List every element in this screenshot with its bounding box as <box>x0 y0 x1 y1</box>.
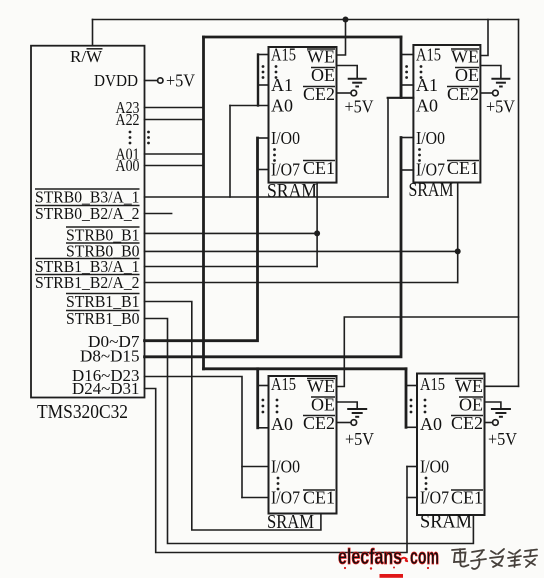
wire U5 WE from right vertical <box>485 385 519 387</box>
ground at U4 OE <box>337 402 368 417</box>
IC U1 TMS320C32 box <box>31 46 145 398</box>
wire A22 stub <box>145 119 204 121</box>
U2 ellipsis dots address outer <box>262 65 265 79</box>
svg-text:A00: A00 <box>116 156 140 175</box>
svg-text:SRAM: SRAM <box>409 179 454 201</box>
svg-text:TMS320C32: TMS320C32 <box>37 401 128 423</box>
wire U2 A0 jog <box>230 105 269 107</box>
svg-text:A0: A0 <box>271 96 293 116</box>
wire U5 I/O7 stub <box>407 497 417 499</box>
wire U2 I/O7 stub <box>258 169 269 171</box>
U2 pin CE1 label <box>303 158 335 178</box>
svg-text:+5V: +5V <box>345 429 374 449</box>
wire U3 I/O0 stub <box>401 137 413 139</box>
wire U4 A0 stub <box>258 427 269 429</box>
U4 ellipsis dots address inner <box>276 399 279 414</box>
U3 pin CE2 label <box>447 84 479 104</box>
wire U2 CE1 drop <box>316 183 318 267</box>
watermark chinese characters 电子发烧友 <box>452 549 537 569</box>
bus address bottom run <box>204 367 407 370</box>
wire U2 address drop to A_1 line <box>229 106 231 198</box>
svg-text:+5V: +5V <box>166 71 195 91</box>
power +5V at U2 CE2 <box>337 90 374 116</box>
pin STRB0_B2/A_2 label <box>35 204 140 223</box>
wire U2 WE tap <box>337 20 346 56</box>
svg-text:I/O0: I/O0 <box>420 457 449 477</box>
bus address drop to U3 <box>400 37 403 97</box>
svg-text:I/O7: I/O7 <box>416 160 445 180</box>
junction dot R/W to U2 WE <box>343 17 349 23</box>
svg-text:A15: A15 <box>416 45 441 65</box>
svg-text:D8~D15: D8~D15 <box>80 347 140 366</box>
svg-text:I/O0: I/O0 <box>416 128 445 148</box>
U2 pin OE label <box>311 65 335 85</box>
wire STRB0_B0 line <box>145 250 458 252</box>
U4 pin CE2 label <box>303 413 335 433</box>
SRAM U4 box (bottom-left) <box>269 376 337 514</box>
pin STRB1_B1 label <box>66 292 140 311</box>
watermark red underline <box>380 574 404 578</box>
svg-text:D24~D31: D24~D31 <box>72 379 140 398</box>
svg-text:I/O7: I/O7 <box>271 160 300 180</box>
svg-text:A0: A0 <box>416 96 438 116</box>
wire STRB1_B2/A_2 line <box>145 282 458 284</box>
U4 pin OE label <box>311 395 335 415</box>
U5 pin CE1 label <box>451 488 483 508</box>
svg-text:A1: A1 <box>416 75 438 95</box>
bus address drop to U5 <box>405 369 408 428</box>
svg-text:I/O0: I/O0 <box>271 128 300 148</box>
wire STRB0_B3/A_1 line <box>145 196 389 198</box>
wire U5 A15 stub <box>406 385 417 387</box>
svg-text:STRB0_B2/A_2: STRB0_B2/A_2 <box>35 204 140 223</box>
watermark connector squiggle <box>401 558 408 561</box>
U3 pin OE label <box>455 65 479 85</box>
svg-text:+5V: +5V <box>488 429 517 449</box>
wire STRB1_B3/A_1 line <box>145 266 318 268</box>
wire A00 stub <box>145 165 204 167</box>
wire D24~D31 line to U5 I/O <box>145 389 408 553</box>
bus address thick top run <box>204 36 402 39</box>
wire U3 address vertical <box>400 55 402 98</box>
wire U4 I/O7 stub <box>242 497 269 499</box>
bus address drop to U4 <box>256 369 259 428</box>
U5 ellipsis dots address inner <box>424 399 427 414</box>
wire U2 A1 stub <box>258 84 269 86</box>
wire U5 I/O0 stub <box>407 466 417 468</box>
U5 pin CE2 label <box>451 413 483 433</box>
U4 ellipsis dots io <box>277 477 280 491</box>
svg-text:I/O7: I/O7 <box>271 488 300 508</box>
U3 pin CE1 label <box>447 158 479 178</box>
svg-text:SRAM: SRAM <box>420 511 472 533</box>
U3 ellipsis dots address inner <box>420 65 423 79</box>
wire U3 address entry <box>388 97 414 99</box>
wire D16~D23 line to U4 I/O <box>145 377 243 498</box>
power +5V at DVDD <box>158 71 195 91</box>
ellipsis dots TMS address outer <box>147 131 150 145</box>
svg-text:A1: A1 <box>271 75 293 95</box>
ground at U3 OE <box>480 66 510 87</box>
svg-text:R/W: R/W <box>70 47 103 66</box>
U2 pin WE label <box>307 47 335 67</box>
wire U4 I/O0 stub <box>242 466 269 468</box>
wire STRB1_B0 line to bottom right SRAM CE1 <box>145 319 474 544</box>
SRAM U2 box (top-left) <box>269 47 337 183</box>
U3 ellipsis dots io <box>418 148 421 162</box>
SRAM U5 box (bottom-right) <box>417 374 485 516</box>
wire R/W top horizontal net <box>93 19 519 21</box>
svg-text:A22: A22 <box>116 110 140 129</box>
pin R/W label <box>70 47 103 66</box>
U3 ellipsis dots address outer <box>405 65 408 79</box>
svg-text:I/O0: I/O0 <box>271 457 300 477</box>
pin STRB0_B1 label <box>66 226 140 245</box>
svg-text:A15: A15 <box>420 374 445 394</box>
ground at U5 OE <box>485 402 511 417</box>
wire U2 address vertical <box>257 55 259 106</box>
wire STRB0_B2/A_2 stub <box>145 213 172 215</box>
wire U2 A15 stub <box>258 54 269 56</box>
U5 ellipsis dots address outer <box>410 399 413 414</box>
svg-text:STRB1_B0: STRB1_B0 <box>66 309 140 328</box>
power +5V at U5 CE2 <box>485 420 518 449</box>
svg-text:com: com <box>410 544 439 569</box>
wire A23 stub <box>145 107 204 109</box>
pin STRB1_B2/A_2 label <box>35 273 140 292</box>
wire A01 stub <box>145 153 204 155</box>
wire U2 I/O0 stub <box>258 137 269 139</box>
power +5V at U3 CE2 <box>480 90 515 116</box>
svg-text:DVDD: DVDD <box>94 71 138 90</box>
U4 pin WE label <box>307 376 335 396</box>
junction dot STRB0_B1 / U2 CE1 <box>314 230 320 236</box>
U5 ellipsis dots io <box>425 477 428 491</box>
pin STRB1_B0 label <box>66 309 140 328</box>
power +5V at U4 CE2 <box>337 420 375 449</box>
svg-text:I/O7: I/O7 <box>420 488 449 508</box>
wire U3 WE tap <box>480 20 488 56</box>
wire right-side vertical R/W net <box>518 20 520 387</box>
pin STRB0_B0 label <box>66 242 140 261</box>
wire U3 CE1 drop <box>457 183 459 283</box>
SRAM U3 box (top-right) <box>413 45 480 183</box>
U4 ellipsis dots address outer <box>262 399 265 414</box>
watermark elecfans.com <box>338 544 439 569</box>
U2 ellipsis dots address inner <box>275 65 278 79</box>
U2 ellipsis dots io <box>273 148 276 162</box>
wire U4 A15 stub <box>258 385 269 387</box>
ellipsis dots TMS address inner <box>129 131 132 145</box>
U5 pin OE label <box>459 395 483 415</box>
bus data D0~D7 to U2 <box>145 138 258 341</box>
wire U5 A0 stub <box>406 426 417 428</box>
wire A_1 riser to U3 <box>387 98 389 197</box>
junction dot STRB0_B0 / U3 CE1 <box>455 248 461 254</box>
wire R/W branch to bottom left SRAM WE <box>337 317 519 387</box>
bus address thick vertical trunk <box>202 37 205 369</box>
bus data D8~D15 to U3 <box>145 138 402 357</box>
svg-text:A15: A15 <box>271 45 296 65</box>
svg-text:A0: A0 <box>271 414 293 434</box>
wire U3 A15 stub <box>401 54 413 56</box>
svg-text:A15: A15 <box>271 374 296 394</box>
wire U3 A1 stub <box>401 84 413 86</box>
svg-text:+5V: +5V <box>345 97 374 117</box>
wire DVDD stub <box>145 80 158 82</box>
U5 pin WE label <box>455 376 483 396</box>
U3 pin WE label <box>451 47 479 67</box>
U2 pin CE2 label <box>303 84 335 104</box>
svg-text:elecfans: elecfans <box>338 544 402 569</box>
U4 pin CE1 label <box>303 488 335 508</box>
wire STRB0_B1 line <box>145 232 318 234</box>
ground at U2 OE <box>337 66 367 87</box>
svg-text:A0: A0 <box>420 414 442 434</box>
watermark ink drips <box>344 567 429 570</box>
pin STRB0_B3/A_1 label <box>35 188 140 207</box>
svg-text:+5V: +5V <box>486 97 515 117</box>
svg-text:STRB1_B2/A_2: STRB1_B2/A_2 <box>35 273 140 292</box>
pin STRB1_B3/A_1 label <box>35 257 140 276</box>
svg-text:SRAM: SRAM <box>267 180 317 202</box>
wire R/W vertical from TMS top <box>92 20 94 46</box>
wire STRB1_B1 line to bottom SRAM CE1 <box>145 302 321 531</box>
wire U3 I/O7 stub <box>401 169 413 171</box>
